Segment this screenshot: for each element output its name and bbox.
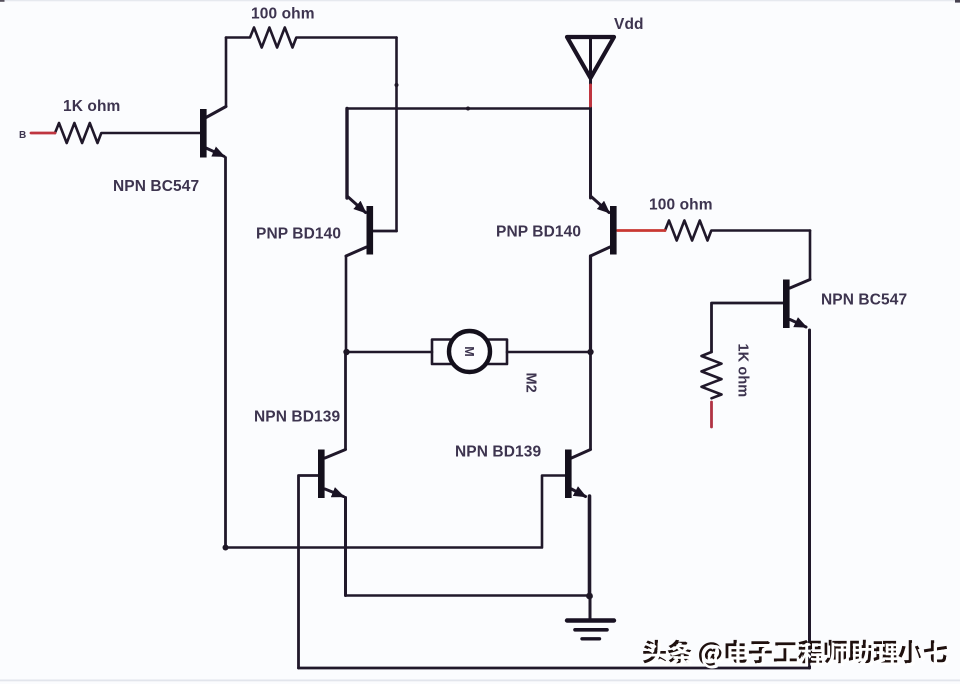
ground symbol	[567, 621, 614, 639]
svg-text:NPN BD139: NPN BD139	[455, 444, 541, 461]
wire R3 right down to Q4 collector	[809, 231, 812, 280]
svg-text:NPN BD139: NPN BD139	[254, 409, 340, 426]
wire Q5 emitter down to ground rail	[344, 498, 347, 596]
wire motor node down to Q6 collector	[589, 352, 592, 449]
transistor Q5 emitter diagonal w/ arrow	[325, 489, 344, 497]
wire R1 left lead down to Q1 collector	[225, 38, 228, 107]
transistor Q6 bar NPN BD139 right	[565, 450, 572, 499]
transistor Q2 base lead	[374, 230, 397, 233]
wire motor right	[507, 351, 591, 354]
watermark 头条 @电子工程师助理小七	[643, 640, 950, 669]
node motor-right junction	[587, 349, 593, 355]
wire Q5 base down x=298.5 then bottom rail corner	[299, 476, 319, 669]
transistor Q5 collector diagonal	[325, 450, 346, 459]
wire Q4 base red lead	[618, 229, 666, 232]
node small dot on top rail	[466, 107, 470, 111]
svg-text:1K ohm: 1K ohm	[63, 98, 120, 115]
resistor R1 100 ohm top-left: leads and zigzag	[226, 28, 397, 48]
transistor Q2 bar PNP BD140 left	[367, 206, 374, 255]
junction node dots	[223, 83, 594, 599]
transistor Q1 collector diagonal	[206, 107, 226, 118]
node small dot on x=396.5	[395, 83, 399, 87]
transistor Q4 collector diagonal	[790, 280, 810, 289]
svg-text:NPN BC547: NPN BC547	[821, 292, 907, 309]
Vdd symbol triangle	[567, 37, 614, 78]
resistor R4 1K ohm vertical zigzag	[702, 352, 722, 398]
transistor Q3 emitter diagonal w/ arrow into bar	[591, 196, 610, 213]
wire bottom rail y=668	[299, 667, 810, 670]
wire rail y=547.5 Q1 emitter to Q6 base	[226, 476, 566, 548]
svg-text:Vdd: Vdd	[614, 16, 644, 33]
transistor Q5 bar NPN BD139 left	[318, 450, 325, 499]
transistor Q3 bar PNP BD140 right	[610, 206, 617, 255]
transistor Q6 emitter diagonal w/ arrow	[572, 489, 586, 497]
transistor Q4 emitter diagonal w/ arrow	[790, 320, 806, 328]
red wire segments	[31, 85, 712, 427]
wire ground stem	[589, 596, 592, 620]
transistor Q2 collector diagonal	[346, 247, 367, 256]
node ground junction	[586, 593, 593, 600]
transistor Q1 bar NPN BC547 left	[200, 109, 207, 158]
svg-text:PNP BD140: PNP BD140	[496, 224, 581, 241]
transistor Q6 collector diagonal	[572, 450, 591, 459]
wire Q4 base left then down to R4	[712, 303, 784, 352]
motor M2 rectangle	[432, 340, 507, 365]
node motor-left junction	[343, 349, 349, 355]
wire motor left	[346, 351, 432, 354]
transistor Q4 bar NPN BC547 right	[783, 280, 790, 329]
svg-text:100 ohm: 100 ohm	[251, 6, 315, 23]
wire R1 right lead down to Q2 base (x=396.5)	[395, 38, 398, 232]
transistor Q1 emitter diagonal w/ arrow	[206, 148, 224, 156]
transistor Q3 collector diagonal	[591, 247, 611, 256]
resistor R3 100 ohm right zigzag	[665, 221, 810, 241]
svg-text:M2: M2	[523, 373, 539, 393]
wire Q2 emitter drop x=347	[345, 109, 348, 199]
wire Q3 collector down to motor node	[589, 256, 592, 352]
svg-text:1K ohm: 1K ohm	[735, 344, 751, 398]
svg-text:B: B	[19, 130, 26, 141]
wire Vdd stem below red to Q4 emitter	[589, 106, 592, 198]
wire ground rail y=595.5	[346, 594, 590, 597]
wire Q2 collector to motor node	[345, 256, 348, 352]
wire Q4 emitter drop x=809.5	[808, 330, 811, 668]
wire input B red lead	[31, 132, 55, 135]
transistor Q2 emitter diagonal w/ arrow into bar	[347, 196, 366, 213]
svg-text:NPN BC547: NPN BC547	[113, 178, 199, 195]
svg-text:M: M	[462, 346, 476, 357]
resistor R2 1K ohm input zigzag	[55, 123, 200, 143]
motor M2 circle	[449, 331, 490, 372]
svg-text:100 ohm: 100 ohm	[649, 197, 713, 214]
wire Vdd stem upper	[589, 37, 592, 85]
node rail corner junction	[223, 545, 229, 551]
wire Q1 emitter drop x=225.5	[224, 158, 227, 548]
wire Q5 left BD139 collector x=345.5	[344, 352, 347, 449]
wire R4 bottom red stub	[710, 402, 713, 427]
svg-text:PNP BD140: PNP BD140	[256, 226, 341, 243]
wire Vdd red segment	[589, 85, 592, 106]
wire top rail y=108.5	[347, 107, 591, 110]
wire Q6 emitter drop to ground node	[588, 496, 592, 596]
